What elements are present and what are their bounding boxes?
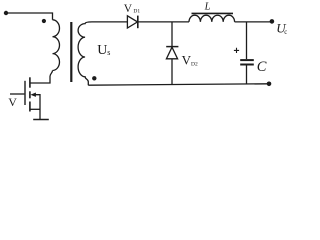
- inductor L humps: [189, 15, 235, 22]
- svg-text:c: c: [284, 28, 287, 36]
- MOSFET V : channel top segment: [29, 77, 31, 87]
- svg-text:s: s: [107, 48, 110, 57]
- diode VD2 cathode bar: [166, 46, 178, 48]
- MOSFET V : source lead: [30, 108, 40, 110]
- bottom rail: [88, 84, 269, 85]
- input terminal (top-left): [4, 11, 8, 15]
- MOSFET V : body arrow head: [30, 93, 36, 97]
- transformer core: [70, 22, 72, 82]
- diode VD1 cathode bar: [137, 16, 139, 29]
- capacitor C : bottom plate: [240, 64, 254, 66]
- wire: inductor to output terminal: [235, 21, 271, 23]
- svg-text:D1: D1: [133, 9, 140, 15]
- ground bar under source: [33, 119, 49, 121]
- svg-text:D2: D2: [191, 62, 198, 68]
- diode VD1 triangle: [127, 16, 137, 28]
- plus sign of capacitor: [234, 48, 239, 53]
- output terminal dot (top right): [270, 19, 275, 24]
- wire: VD1 to inductor (through VD2 junction): [138, 21, 189, 23]
- wire: secondary top to diode VD1: [92, 21, 127, 23]
- MOSFET V : channel middle segment: [29, 91, 31, 98]
- capacitor C : top wire: [246, 22, 248, 59]
- svg-text:C: C: [257, 59, 267, 75]
- inductor L core bar: [192, 12, 234, 14]
- svg-text:L: L: [204, 2, 211, 13]
- MOSFET V : channel bottom segment: [29, 102, 31, 112]
- MOSFET V : gate bar: [24, 81, 26, 105]
- svg-text:V: V: [124, 3, 133, 15]
- wire: primary bottom lead to drain: [30, 71, 53, 84]
- wire: input to primary top: [6, 13, 53, 20]
- diode VD2 bottom wire: [171, 59, 173, 85]
- freewheel diode VD2 : top wire: [171, 22, 173, 46]
- secondary polarity dot: [92, 76, 96, 80]
- transformer secondary winding: [78, 22, 92, 85]
- MOSFET V : gate lead: [10, 93, 24, 95]
- bottom output terminal dot: [267, 82, 272, 87]
- svg-text:U: U: [97, 43, 107, 58]
- svg-text:V: V: [8, 95, 17, 109]
- capacitor C : top plate: [240, 59, 254, 61]
- transformer primary winding: [53, 20, 60, 71]
- primary polarity dot: [42, 19, 46, 23]
- MOSFET V : body lead with arrow: [35, 95, 41, 120]
- diode VD2 triangle: [166, 47, 177, 59]
- capacitor C : bottom wire: [246, 65, 248, 85]
